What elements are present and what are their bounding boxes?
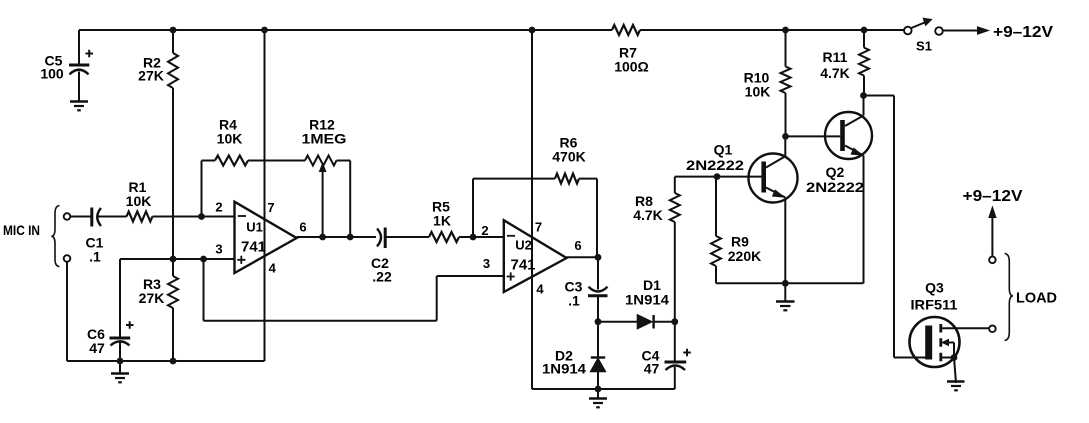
svg-text:4: 4 <box>269 261 277 276</box>
svg-text:2N2222: 2N2222 <box>686 157 744 173</box>
capacitor C1 <box>70 208 126 227</box>
svg-text:6: 6 <box>574 238 581 253</box>
ground (U2 / detector) <box>589 389 607 407</box>
wire Q2 base <box>786 135 841 137</box>
node U1 out/R12 wiper <box>319 234 326 241</box>
node Q3 source <box>951 354 958 361</box>
resistor R11 <box>859 30 869 96</box>
svg-text:Q2: Q2 <box>826 164 845 180</box>
brace (LOAD) <box>1005 254 1013 341</box>
node rail/R2 <box>170 27 177 34</box>
svg-text:U2: U2 <box>515 238 532 253</box>
wire +V rail <box>79 29 904 31</box>
resistor R4 <box>215 156 248 166</box>
svg-text:10K: 10K <box>126 193 152 209</box>
svg-text:2: 2 <box>215 200 222 215</box>
potentiometer R12 <box>305 156 337 238</box>
svg-text:100: 100 <box>40 66 64 82</box>
diode D1 <box>638 315 675 329</box>
resistor R5 <box>429 232 459 242</box>
svg-text:.22: .22 <box>372 269 392 285</box>
node U1 pin2/R4 <box>198 213 205 220</box>
svg-text:IRF511: IRF511 <box>911 297 958 313</box>
node D1/R8/C4 <box>671 318 678 325</box>
resistor R3 <box>168 259 178 361</box>
resistor R8 <box>670 177 680 322</box>
node pin3/R2R3 <box>170 256 177 263</box>
svg-text:100Ω: 100Ω <box>614 59 649 75</box>
wire emitter ground bus <box>716 282 864 284</box>
op-amp U1 <box>235 202 297 273</box>
svg-text:7: 7 <box>267 200 274 215</box>
capacitor C3 <box>588 257 608 321</box>
brace (MIC IN) <box>51 206 59 267</box>
svg-text:220K: 220K <box>728 248 761 264</box>
transistor Q1 <box>749 136 798 283</box>
wire R6 feedback loop <box>473 179 597 258</box>
wire R12 to U1 output <box>337 161 351 238</box>
svg-text:2N2222: 2N2222 <box>806 179 864 195</box>
svg-text:LOAD: LOAD <box>1016 290 1057 307</box>
svg-text:10K: 10K <box>217 131 243 147</box>
svg-text:1N914: 1N914 <box>625 292 669 308</box>
wire ground bus (left) <box>67 360 265 362</box>
svg-text:47: 47 <box>89 340 105 356</box>
resistor R7 <box>612 25 640 35</box>
svg-text:6: 6 <box>299 220 306 235</box>
node rail/R10 <box>782 27 789 34</box>
svg-text:1MEG: 1MEG <box>302 131 347 147</box>
svg-text:10K: 10K <box>745 84 771 100</box>
wire Q1 base <box>675 176 762 178</box>
wire mic lower terminal to ground bus <box>66 262 68 361</box>
ground (Q1/Q2 emitters) <box>776 283 795 310</box>
svg-text:+9–12V: +9–12V <box>963 188 1023 205</box>
node rail/U1 supply <box>261 27 268 34</box>
wire R4 to R12 <box>248 160 305 162</box>
svg-text:4: 4 <box>536 282 544 297</box>
svg-text:3: 3 <box>215 242 222 257</box>
load terminals <box>989 257 996 333</box>
ground (Q3 source) <box>947 382 965 391</box>
resistor R2 <box>168 30 178 259</box>
wire bias feed U1 pin3 to U2 pin3 <box>204 259 504 321</box>
wire U2 output <box>567 256 598 258</box>
wire U2 supply line (pins 7/4) <box>531 30 533 389</box>
svg-text:27K: 27K <box>138 68 164 84</box>
svg-text:470K: 470K <box>552 149 585 165</box>
wire U1 pin 3 line <box>120 258 235 260</box>
node R10/Q1 coll/Q2 base <box>782 133 789 140</box>
ground (C5) <box>70 102 88 111</box>
node emitter ground <box>782 280 789 287</box>
wire U2 pin4 to ground bus <box>532 388 675 390</box>
svg-text:1N914: 1N914 <box>542 361 586 377</box>
wire U1 feedback riser <box>202 161 216 217</box>
svg-text:.1: .1 <box>89 249 101 265</box>
diode D2 <box>591 322 605 389</box>
svg-text:U1: U1 <box>246 220 263 235</box>
node U2 out/R6/C3 <box>595 254 602 261</box>
svg-text:741: 741 <box>241 240 266 256</box>
node C3/D1/D2 <box>595 318 602 325</box>
svg-text:2: 2 <box>481 223 488 238</box>
wire R1 to U1 pin 2 <box>153 216 235 218</box>
wire S1 to +V arrow <box>943 27 989 34</box>
svg-text:4.7K: 4.7K <box>633 207 663 223</box>
svg-text:1K: 1K <box>433 213 451 229</box>
svg-text:27K: 27K <box>139 290 165 306</box>
wire R5 to U2 pin 2 <box>459 236 504 238</box>
switch S1 <box>904 18 943 35</box>
svg-text:47: 47 <box>644 361 660 377</box>
resistor R10 <box>781 30 791 136</box>
resistor R6 <box>555 174 579 184</box>
svg-text:Q1: Q1 <box>714 142 733 158</box>
svg-text:741: 741 <box>511 258 536 274</box>
wire C3 to D1 <box>598 321 638 323</box>
node rail/U2 supply <box>529 27 536 34</box>
MOSFET Q3 <box>910 317 990 383</box>
resistor R1 <box>127 212 153 222</box>
svg-text:3: 3 <box>483 256 490 271</box>
capacitor C6 <box>110 259 134 361</box>
svg-text:4.7K: 4.7K <box>820 65 850 81</box>
capacitor C4 <box>665 322 691 389</box>
wire U1 supply line (pins 7/4) <box>264 30 266 361</box>
capacitor C2 <box>377 228 429 249</box>
wire U1 output <box>297 236 376 238</box>
wire load +V arrow <box>989 207 996 257</box>
node pin3/bias feed <box>200 256 207 263</box>
capacitor C5 <box>69 30 93 101</box>
node D2/C4 ground <box>595 386 602 393</box>
svg-text:.1: .1 <box>568 293 580 309</box>
svg-text:+9–12V: +9–12V <box>993 24 1053 41</box>
node R3/ground bus <box>170 358 177 365</box>
svg-text:7: 7 <box>535 220 542 235</box>
node Q1 base/R9 <box>714 173 721 180</box>
mic input terminals <box>64 213 71 262</box>
node rail/R11 <box>861 27 868 34</box>
svg-text:MIC IN: MIC IN <box>3 222 40 238</box>
svg-text:R11: R11 <box>823 49 848 65</box>
ground (C6) <box>111 361 129 382</box>
node R5/R6/U2 pin2 <box>470 234 477 241</box>
op-amp U2 <box>504 220 567 292</box>
wire Q2 collector to Q3 gate <box>864 96 927 358</box>
node C6/ground bus <box>117 358 124 365</box>
svg-text:S1: S1 <box>916 39 932 54</box>
node U1 out/R12 end <box>347 234 354 241</box>
resistor R9 <box>711 177 721 284</box>
transistor Q2 <box>825 96 872 284</box>
node R11/Q2 coll <box>860 92 867 99</box>
svg-text:Q3: Q3 <box>925 280 944 296</box>
